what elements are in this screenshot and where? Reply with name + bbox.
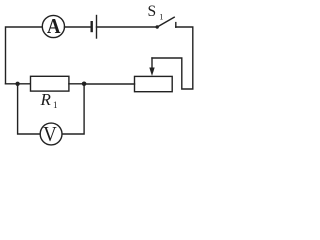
- svg-text:V: V: [43, 122, 57, 146]
- svg-text:R: R: [40, 90, 52, 109]
- label R1: [40, 90, 58, 110]
- svg-text:1: 1: [159, 12, 163, 22]
- ammeter A1: [42, 14, 64, 38]
- wire R1 right to junction: [69, 83, 84, 85]
- wire middle-left to R1: [6, 83, 31, 85]
- label S1: [148, 3, 164, 22]
- svg-text:S: S: [148, 3, 157, 20]
- switch S1: [156, 17, 176, 28]
- resistor R1: [31, 76, 69, 91]
- wire ammeter to battery: [65, 26, 91, 28]
- wire switch to top-right corner and down: [152, 27, 193, 89]
- svg-text:1: 1: [53, 100, 58, 110]
- battery cell: [92, 16, 97, 39]
- wire rheostat left terminal: [84, 83, 134, 85]
- node junction right: [82, 82, 87, 87]
- rheostat (slide resistor): [135, 76, 173, 91]
- voltmeter V1: [40, 122, 62, 146]
- wire top-left from ammeter to corner: [6, 27, 43, 84]
- svg-text:A: A: [47, 14, 61, 38]
- wiper arrow into rheostat: [149, 58, 154, 76]
- wire voltmeter branch left: [18, 84, 41, 134]
- node junction left: [15, 82, 19, 86]
- wire voltmeter branch right: [62, 84, 84, 134]
- wire battery to switch: [97, 26, 158, 28]
